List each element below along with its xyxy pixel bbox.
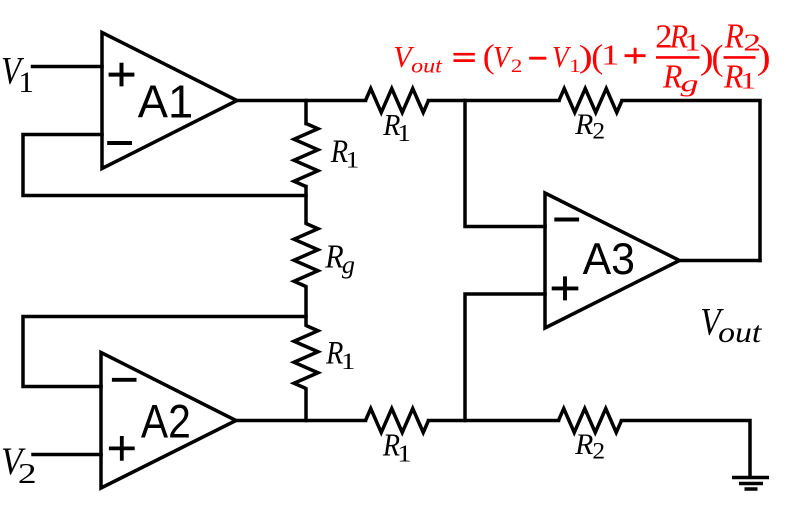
wire A2 output to bottom R1 — [236, 419, 366, 423]
wire V2 to A2 noninverting input — [33, 453, 101, 457]
wire R2 to A3 output (right feedback) — [622, 101, 760, 261]
svg-text:1: 1 — [341, 348, 355, 374]
wire R1 to R2 (top) — [429, 99, 560, 103]
label Vout — [700, 300, 762, 349]
svg-text:1: 1 — [601, 41, 619, 72]
svg-text:g: g — [342, 251, 355, 279]
svg-text:1: 1 — [346, 146, 360, 173]
resistor R1 (bottom horizontal) — [366, 409, 429, 433]
svg-text:R: R — [574, 428, 593, 461]
svg-text:): ) — [757, 39, 771, 77]
resistor R1 (vertical top) — [294, 124, 318, 187]
svg-text:A2: A2 — [141, 396, 191, 448]
label Rg — [324, 238, 355, 279]
svg-text:1: 1 — [397, 440, 411, 467]
wire A1 output to R1 — [237, 99, 366, 103]
wire node at A1 output down to vertical R1 — [304, 101, 308, 124]
formula Vout = (V2 - V1)(1 + 2R1/Rg)(R2/R1) — [393, 17, 771, 97]
label R1 (vertical bottom resistor) — [325, 335, 355, 375]
wire between vertical R1 and Rg — [304, 187, 308, 224]
resistor R1 (vertical bottom) — [294, 326, 318, 389]
svg-text:2: 2 — [592, 439, 605, 465]
svg-text:1: 1 — [397, 120, 411, 147]
label R2 (bottom horizontal resistor) — [574, 428, 605, 465]
resistor Rg (vertical middle) — [294, 224, 318, 287]
label R2 (top horizontal resistor) — [574, 108, 605, 145]
svg-text:R: R — [574, 108, 593, 141]
wire bottom R2 to ground — [622, 421, 751, 478]
resistor R2 (top horizontal) — [559, 89, 622, 113]
svg-text:R: R — [324, 238, 343, 275]
wire bottom node up to A3 noninverting input — [465, 294, 545, 421]
svg-text:out: out — [718, 316, 762, 349]
svg-text:A1: A1 — [138, 76, 193, 128]
label V2 — [1, 440, 37, 490]
svg-text:1: 1 — [18, 66, 34, 99]
resistor R1 (top horizontal) — [366, 89, 429, 113]
wire between Rg and bottom vertical R1 — [304, 287, 308, 325]
resistor R2 (bottom horizontal) — [559, 409, 622, 433]
label V1 — [1, 49, 34, 99]
svg-text:out: out — [411, 53, 442, 77]
svg-text:(: ( — [712, 37, 724, 77]
svg-text:g: g — [681, 70, 699, 97]
svg-text:2: 2 — [511, 55, 522, 77]
svg-text:R: R — [662, 59, 682, 96]
svg-text:R: R — [724, 17, 744, 56]
svg-text:2: 2 — [592, 119, 605, 145]
svg-text:1: 1 — [740, 68, 756, 94]
wire A3 output — [680, 259, 761, 263]
svg-text:A3: A3 — [583, 234, 635, 284]
wire top node down to A3 inverting input — [465, 101, 545, 227]
svg-text:1: 1 — [684, 30, 701, 56]
label R1 (bottom horizontal resistor) — [382, 429, 412, 467]
op-amp A2 — [101, 353, 236, 489]
op-amp A1 — [102, 33, 237, 169]
op-amp A3 — [545, 193, 680, 328]
wire bottom R1 to bottom R2 — [429, 419, 559, 423]
label R1 (vertical top resistor) — [330, 132, 359, 173]
label R1 (top horizontal resistor) — [382, 109, 411, 147]
wire V1 to A1 noninverting input — [33, 65, 103, 69]
ground — [732, 478, 769, 490]
svg-text:2: 2 — [18, 458, 37, 490]
wire A1 inverting input feedback to R1/Rg node — [23, 135, 306, 196]
wire bottom of chain to A2 output wire — [304, 389, 308, 421]
wire A2 inverting input feedback to Rg/R1 node — [23, 317, 306, 387]
